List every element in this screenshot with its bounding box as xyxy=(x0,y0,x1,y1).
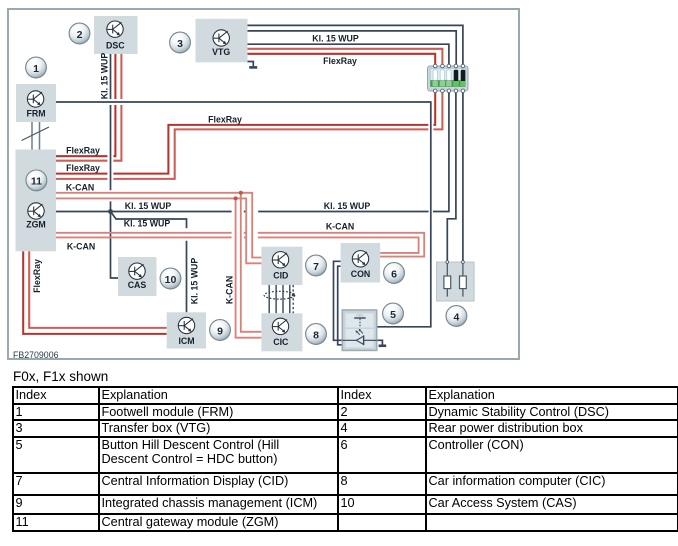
svg-text:FlexRay: FlexRay xyxy=(323,56,357,66)
K-CAN ZGM to CON lower/inner line xyxy=(56,237,419,253)
index ball 11 xyxy=(26,170,47,191)
svg-text:K-CAN: K-CAN xyxy=(326,222,354,232)
FlexRay VTG-connector-ZGM inner (dark red) xyxy=(56,54,435,174)
svg-text:CAS: CAS xyxy=(128,280,147,290)
svg-text:3: 3 xyxy=(177,38,183,50)
module CIC xyxy=(261,313,302,351)
module ICM xyxy=(167,312,206,348)
wire: CON to button line B xyxy=(338,266,343,345)
svg-text:Kl. 15 WUP: Kl. 15 WUP xyxy=(125,201,172,211)
module FRM xyxy=(16,84,56,122)
caption F0x, F1x shown xyxy=(13,369,108,384)
wire: VTG line A to connector pin5 xyxy=(248,25,463,66)
button HDC module xyxy=(342,310,376,350)
FlexRay DSC-ZGM light red line xyxy=(56,54,121,161)
module ZGM xyxy=(16,150,57,252)
fuse 1 xyxy=(446,264,448,297)
K-CAN branch to CIC line 1 xyxy=(241,193,262,332)
svg-text:FlexRay: FlexRay xyxy=(32,259,42,293)
svg-text:FRM: FRM xyxy=(26,109,45,119)
svg-text:K-CAN: K-CAN xyxy=(225,276,235,304)
svg-text:Kl. 15 WUP: Kl. 15 WUP xyxy=(100,53,110,100)
wire: VTG line B to connector pin4 xyxy=(248,31,457,66)
index ball 4 xyxy=(446,306,467,327)
wire: FRM to ZGM harness lines xyxy=(32,122,40,150)
index ball 7 xyxy=(306,255,327,276)
svg-text:Kl. 15 WUP: Kl. 15 WUP xyxy=(124,219,171,229)
junction KL15 at DSC column xyxy=(108,209,113,214)
svg-text:5: 5 xyxy=(390,309,396,321)
index ball 1 xyxy=(26,57,47,78)
index ball 10 xyxy=(160,268,181,289)
rear power distribution box with fuses xyxy=(437,261,475,301)
svg-text:7: 7 xyxy=(313,261,319,273)
svg-text:2: 2 xyxy=(77,29,83,41)
K-CAN ZGM to CID lower line xyxy=(56,198,261,263)
index ball 8 xyxy=(306,324,327,345)
wire: connector pin4 down to fuse 1 xyxy=(447,91,456,261)
index ball 6 xyxy=(384,263,405,284)
wire: connector pin5 down to fuse 2 xyxy=(462,91,464,261)
svg-text:Kl. 15 WUP: Kl. 15 WUP xyxy=(312,33,359,43)
module CID xyxy=(261,247,302,285)
svg-text:ZGM: ZGM xyxy=(26,220,46,230)
index ball 3 xyxy=(170,32,191,53)
svg-text:Kl. 15 WUP: Kl. 15 WUP xyxy=(324,201,371,211)
svg-text:CID: CID xyxy=(273,270,288,280)
ground symbol at VTG xyxy=(248,62,254,67)
svg-text:DSC: DSC xyxy=(106,40,125,50)
svg-text:FlexRay: FlexRay xyxy=(208,114,242,124)
switch symbol xyxy=(354,317,366,319)
connector pin circles bottom xyxy=(433,89,464,93)
svg-text:FlexRay: FlexRay xyxy=(66,145,100,155)
FlexRay ZGM-ICM dark red line xyxy=(23,251,167,334)
FlexRay ZGM-ICM light red line xyxy=(29,251,167,328)
CID-CIC dashed line xyxy=(292,285,294,313)
CID-CIC link lines xyxy=(269,285,290,313)
svg-text:CON: CON xyxy=(351,269,371,279)
index ball 5 xyxy=(383,303,404,324)
wire: DSC KL15 vertical xyxy=(110,54,112,212)
svg-text:1: 1 xyxy=(33,63,39,75)
wire: FRM terminal line to button module (dark) xyxy=(56,102,431,327)
svg-text:6: 6 xyxy=(391,268,397,280)
module CAS xyxy=(118,257,157,296)
wire: VTG KL15 line to connector pin3 xyxy=(248,44,449,66)
svg-text:VTG: VTG xyxy=(212,47,230,57)
svg-text:FlexRay: FlexRay xyxy=(66,163,100,173)
svg-text:K-CAN: K-CAN xyxy=(66,182,94,192)
explanation table xyxy=(12,386,678,532)
index ball 9 xyxy=(210,320,231,341)
svg-text:10: 10 xyxy=(165,274,177,286)
K-CAN ZGM to CON upper/outer line xyxy=(56,233,424,257)
svg-text:8: 8 xyxy=(313,329,319,341)
LED symbol xyxy=(342,339,376,341)
ground symbol at button module xyxy=(377,340,383,344)
svg-text:CIC: CIC xyxy=(273,337,289,347)
svg-text:11: 11 xyxy=(31,176,42,188)
harness slash xyxy=(22,127,50,141)
svg-text:ICM: ICM xyxy=(178,336,194,346)
svg-text:HDC: HDC xyxy=(356,314,364,318)
index ball 2 xyxy=(69,23,90,44)
diagram frame xyxy=(8,9,519,359)
FlexRay VTG-connector-ZGM outer (light red) xyxy=(56,49,442,179)
svg-text:4: 4 xyxy=(453,311,459,323)
svg-text:Kl. 15 WUP: Kl. 15 WUP xyxy=(190,258,200,305)
connector pin circles top xyxy=(433,64,464,68)
wire labels xyxy=(32,33,370,304)
connector X plug xyxy=(428,64,469,92)
K-CAN junction dots xyxy=(239,191,243,195)
wire: CON to button line A xyxy=(334,261,343,340)
FlexRay DSC-ZGM dark red line xyxy=(56,54,115,156)
svg-text:FB2709006: FB2709006 xyxy=(13,350,59,360)
svg-text:K-CAN: K-CAN xyxy=(67,242,95,252)
wire: KL15 WUP main line ZGM to connector pin3 xyxy=(56,91,449,212)
wire: KL15 branch to ICM xyxy=(111,212,187,313)
wire: KL15 branch to CAS xyxy=(111,212,119,279)
svg-text:9: 9 xyxy=(217,325,223,337)
module VTG xyxy=(196,19,248,63)
fuse 2 xyxy=(462,264,464,297)
K-CAN branch to CIC line 2 xyxy=(236,198,262,337)
K-CAN ZGM to CID upper line xyxy=(56,193,261,258)
module DSC xyxy=(94,16,138,54)
cable loop ellipse xyxy=(264,291,295,299)
module CON xyxy=(341,243,381,283)
